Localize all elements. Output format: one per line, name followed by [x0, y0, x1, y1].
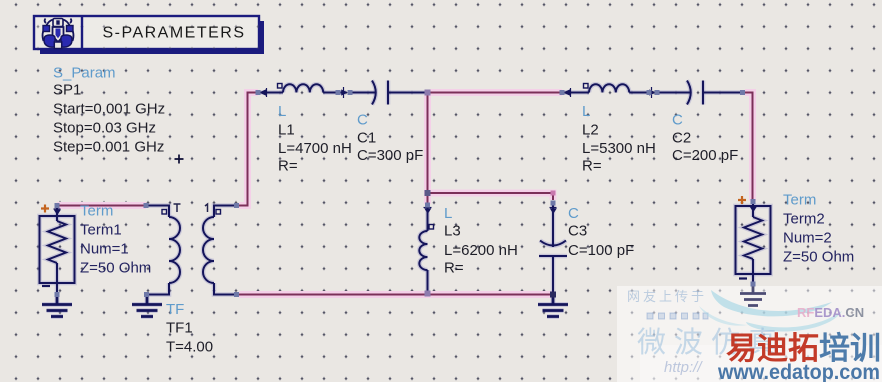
svg-text:Z=50 Ohm: Z=50 Ohm	[80, 260, 151, 277]
svg-text:C=100 pF: C=100 pF	[568, 242, 634, 259]
svg-text:SP1: SP1	[53, 82, 81, 99]
svg-text:S-PARAMETERS: S-PARAMETERS	[102, 25, 245, 42]
svg-text:C3: C3	[568, 223, 587, 240]
svg-text:Z=50 Ohm: Z=50 Ohm	[783, 249, 854, 266]
svg-text:Stop=0.03 GHz: Stop=0.03 GHz	[53, 120, 156, 137]
svg-text:TF1: TF1	[166, 320, 193, 337]
svg-text:Term2: Term2	[783, 211, 825, 228]
svg-text:TF: TF	[166, 301, 184, 318]
svg-text:Term: Term	[783, 192, 816, 209]
svg-text:T=4.00: T=4.00	[166, 339, 213, 356]
svg-text:L=4700 nH: L=4700 nH	[278, 140, 352, 157]
svg-text:C2: C2	[672, 130, 691, 147]
svg-text:L3: L3	[444, 223, 461, 240]
svg-text:L: L	[582, 103, 590, 120]
svg-text:网友上传于: 网友上传于	[627, 289, 707, 304]
svg-text:Step=0.001 GHz: Step=0.001 GHz	[53, 139, 164, 156]
svg-text:L: L	[444, 205, 452, 222]
svg-text:Num=1: Num=1	[80, 241, 129, 258]
svg-text:R=: R=	[278, 158, 298, 175]
svg-text:C: C	[568, 205, 579, 222]
svg-text:C: C	[672, 112, 683, 129]
svg-text:Term: Term	[80, 203, 113, 220]
svg-text:RFEDA.CN: RFEDA.CN	[797, 305, 864, 320]
svg-text:Term1: Term1	[80, 222, 122, 239]
svg-text:C1: C1	[357, 130, 376, 147]
svg-text:http://: http://	[664, 359, 703, 376]
svg-text:S_Param: S_Param	[53, 65, 116, 82]
svg-text:L2: L2	[582, 122, 599, 139]
svg-text:L=6200 nH: L=6200 nH	[444, 242, 518, 259]
svg-text:Start=0.001 GHz: Start=0.001 GHz	[53, 101, 165, 118]
svg-text:C=300 pF: C=300 pF	[357, 147, 423, 164]
svg-text:C=200 pF: C=200 pF	[672, 147, 738, 164]
svg-text:C: C	[357, 112, 368, 129]
svg-text:L: L	[278, 103, 286, 120]
svg-text:R=: R=	[444, 260, 464, 277]
svg-text:L1: L1	[278, 122, 295, 139]
svg-text:R=: R=	[582, 158, 602, 175]
svg-text:Num=2: Num=2	[783, 230, 832, 247]
svg-text:www.edatop.com: www.edatop.com	[717, 360, 880, 382]
svg-text:L=5300 nH: L=5300 nH	[582, 140, 656, 157]
